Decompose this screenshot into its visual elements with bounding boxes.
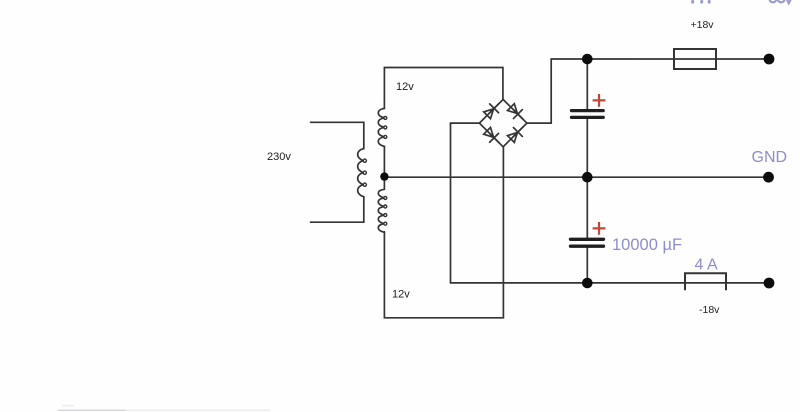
polarity + of C2 (593, 222, 606, 235)
transformer T1 secondary upper winding 12v (378, 108, 384, 146)
faint artifact line bottom left (58, 409, 270, 411)
diode D4 lower-right (506, 123, 527, 144)
terminal GND (763, 172, 774, 183)
svg-text:+18v: +18v (691, 19, 715, 31)
transformer T1 primary winding (358, 149, 364, 197)
wire bridge + output to top rail (527, 59, 551, 123)
terminal -18v (764, 278, 775, 289)
fuse F2 4A bracket (685, 273, 726, 289)
diode D3 lower-left (483, 126, 504, 147)
wire secondary bottom lead to bridge AC2 (384, 147, 503, 318)
transformer T1 primary top lead (311, 122, 364, 148)
polarity + of C1 (593, 94, 606, 107)
wire -18v bottom rail (451, 282, 770, 284)
clipped text top left group (691, 0, 711, 4)
capacitor C1 plates (572, 111, 604, 118)
svg-text:12v: 12v (396, 81, 414, 93)
svg-text:GND: GND (752, 149, 788, 166)
secondary lower knots (384, 196, 387, 225)
capacitor C1 leads (586, 59, 588, 177)
diode D1 upper-left (483, 99, 504, 120)
capacitor C2 plates (571, 239, 604, 246)
svg-text:-18v: -18v (699, 304, 720, 316)
svg-text:10000 µF: 10000 µF (612, 236, 682, 254)
svg-text:230v: 230v (267, 151, 291, 163)
capacitor C2 leads (586, 177, 588, 283)
transformer T1 primary knots (363, 159, 366, 186)
bridge rectifier diamond (479, 99, 527, 146)
wire +18v top rail (551, 58, 769, 60)
wire GND rail (384, 176, 768, 178)
secondary upper knots (384, 116, 387, 138)
fuse F1 body (674, 49, 716, 69)
transformer T1 secondary lower winding 12v (378, 189, 384, 232)
junction node GND rail (582, 172, 593, 183)
wire secondary top lead to bridge AC1 (384, 68, 503, 109)
terminal +18v (764, 54, 775, 65)
transformer T1 primary bottom lead (311, 197, 364, 223)
svg-text:12v: 12v (392, 289, 410, 301)
clipped text top right group (770, 0, 792, 3)
diode D2 upper-right (506, 103, 527, 124)
faint artifact smudge (62, 405, 74, 407)
svg-text:4 A: 4 A (695, 257, 718, 274)
wire bridge - output down (451, 123, 480, 283)
node transformer centre tap (380, 172, 388, 180)
junction node top rail (582, 54, 593, 65)
wire secondary centre segment (383, 146, 385, 189)
junction node bottom rail (582, 278, 593, 289)
